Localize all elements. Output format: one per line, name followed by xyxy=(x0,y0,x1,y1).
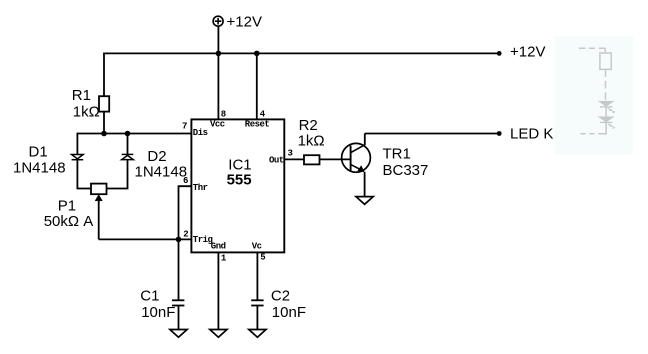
wire LED K xyxy=(365,133,499,135)
junction pin4/bus xyxy=(254,51,260,57)
wire discharge row down to D1 xyxy=(76,133,78,155)
svg-text:Gnd: Gnd xyxy=(211,242,226,252)
wire pin 5 down to C2 xyxy=(256,252,258,300)
wire C2 to ground xyxy=(256,306,258,330)
junction pin8/bus xyxy=(216,51,222,57)
P1 wiper arrow xyxy=(95,195,102,201)
svg-text:R2: R2 xyxy=(299,117,318,134)
diode D2 (cathode top, pointing up) xyxy=(122,154,134,159)
svg-text:3: 3 xyxy=(288,148,293,158)
svg-text:10nF: 10nF xyxy=(141,304,175,321)
transistor TR1 xyxy=(342,143,371,172)
wire trigger junction down to C1 xyxy=(178,239,180,300)
svg-text:D2: D2 xyxy=(147,148,166,165)
svg-text:6: 6 xyxy=(183,176,188,186)
ground (TR1) xyxy=(356,197,373,205)
svg-text:Dis: Dis xyxy=(193,128,208,138)
op IC1 555 body xyxy=(191,119,284,252)
wire R2 to base xyxy=(320,158,351,160)
svg-text:Trig: Trig xyxy=(193,235,213,245)
svg-text:BC337: BC337 xyxy=(383,162,429,179)
power supply +12V terminal xyxy=(213,16,223,26)
wire +12V bus xyxy=(104,52,499,54)
svg-text:1N4148: 1N4148 xyxy=(135,163,188,180)
wire discharge row down to D2 xyxy=(127,134,129,155)
svg-text:C1: C1 xyxy=(140,288,159,305)
junction R1/discharge row xyxy=(101,131,107,137)
potentiometer P1 body xyxy=(91,184,107,195)
ghost LED LD2 xyxy=(600,117,615,128)
svg-text:+12V: +12V xyxy=(510,44,545,61)
node +12V right terminal xyxy=(497,51,502,56)
node LED K terminal xyxy=(497,131,502,136)
svg-text:+12V: +12V xyxy=(227,13,262,30)
ghost wire resistor to LED (dashed vertical) xyxy=(605,69,607,101)
svg-text:Vcc: Vcc xyxy=(210,120,225,130)
svg-text:7: 7 xyxy=(182,122,187,132)
svg-text:1kΩ: 1kΩ xyxy=(298,133,325,150)
ghost wire to LED K (dashed bottom) xyxy=(580,122,606,133)
capacitor C1 xyxy=(172,300,184,305)
TR1 emitter arrow xyxy=(357,165,364,172)
junction D2/discharge row xyxy=(125,131,131,137)
wire pin 4 reset drop xyxy=(256,53,258,119)
wire C1 to ground xyxy=(178,306,180,330)
ghost highlight region xyxy=(555,36,633,155)
svg-text:Vc: Vc xyxy=(252,242,262,252)
svg-text:555: 555 xyxy=(227,171,252,188)
ground (C2) xyxy=(249,330,266,338)
ground (C1) xyxy=(170,330,187,338)
svg-text:4: 4 xyxy=(260,109,266,119)
svg-text:Thr: Thr xyxy=(193,183,208,193)
resistor R1 xyxy=(99,96,109,111)
svg-text:5: 5 xyxy=(260,253,265,263)
wire D2 to P1 right xyxy=(107,160,128,189)
wire +12V stem down to pin 8 xyxy=(217,26,219,119)
wire threshold stub pin 6 down to trigger row xyxy=(179,186,192,239)
diode D1 (anode top, pointing down) xyxy=(72,155,84,160)
wire bus corner down to R1 xyxy=(103,53,105,97)
resistor R2 xyxy=(304,155,320,164)
junction trig/thr/C1 xyxy=(176,237,182,243)
wire wiper down to trigger row xyxy=(98,200,100,239)
svg-text:Out: Out xyxy=(269,156,284,166)
svg-text:1N4148: 1N4148 xyxy=(13,159,66,176)
ground (pin 1) xyxy=(210,330,227,338)
svg-text:1kΩ: 1kΩ xyxy=(73,104,100,121)
svg-text:10nF: 10nF xyxy=(272,304,306,321)
ghost LED LD1 xyxy=(600,102,615,113)
svg-text:D1: D1 xyxy=(29,144,48,161)
ghost wire LED1 to LED2 xyxy=(605,107,607,117)
svg-text:1: 1 xyxy=(221,253,227,263)
wire trigger row to pin 2 xyxy=(99,238,192,240)
svg-text:50kΩ A: 50kΩ A xyxy=(44,213,94,230)
svg-text:TR1: TR1 xyxy=(383,146,411,163)
svg-text:2: 2 xyxy=(183,229,188,239)
ghost resistor xyxy=(600,53,611,69)
svg-text:R1: R1 xyxy=(72,87,91,104)
wire pin 1 to ground xyxy=(217,252,219,329)
svg-text:C2: C2 xyxy=(271,288,290,305)
wire collector up to LED K line xyxy=(364,134,366,146)
svg-text:LED K: LED K xyxy=(510,125,553,142)
wire emitter to ground xyxy=(364,172,366,197)
svg-text:Reset: Reset xyxy=(245,120,270,130)
wire R1 to discharge row xyxy=(103,112,105,134)
wire pin 3 out to R2 xyxy=(284,158,304,160)
svg-text:8: 8 xyxy=(221,109,226,119)
wire discharge row to pin 7 xyxy=(77,133,191,135)
ghost wire from +12V (dashed) xyxy=(579,48,605,53)
capacitor C2 xyxy=(251,300,263,305)
wire D1 to P1 left xyxy=(77,160,91,189)
